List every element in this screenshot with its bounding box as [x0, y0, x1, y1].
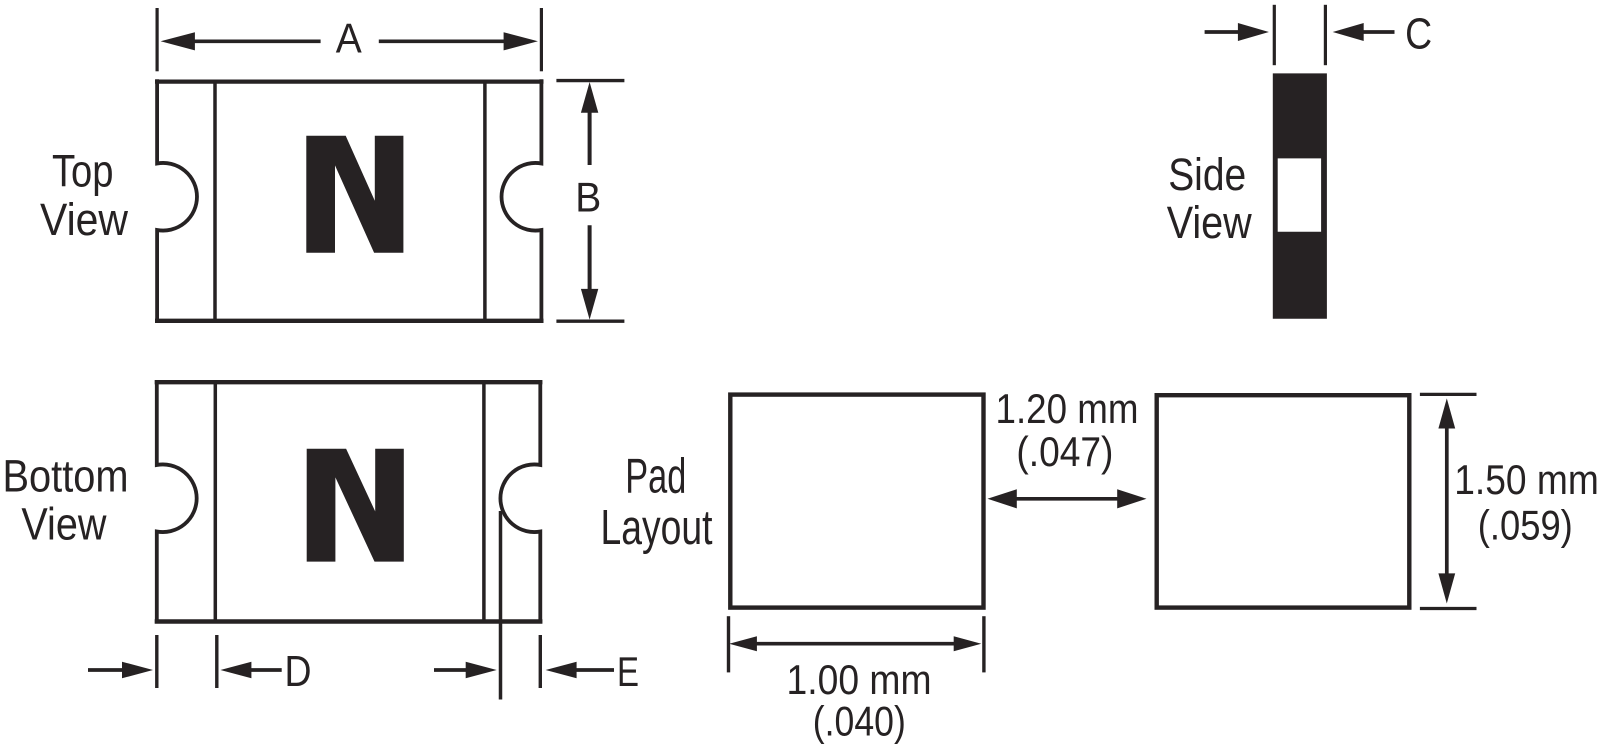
dimension C left pointer shaft [1205, 30, 1238, 34]
side view C left extension line [1273, 5, 1276, 65]
svg-text:1.50 mm: 1.50 mm [1454, 456, 1599, 503]
svg-text:View: View [1167, 197, 1252, 248]
svg-text:(.059): (.059) [1478, 502, 1573, 549]
dimension D/E tick at body left edge [155, 635, 158, 688]
dimension E tick at body right edge [539, 635, 542, 688]
pad height bottom arrowhead [1438, 573, 1455, 603]
pad width right tick [982, 616, 985, 672]
dimension A right arrowhead [504, 32, 538, 50]
bottom view left edge with notch [157, 380, 197, 623]
dimension B arrow lower shaft [588, 225, 592, 291]
svg-text:Layout: Layout [601, 501, 713, 555]
pad width right arrowhead [954, 636, 982, 651]
svg-text:E: E [617, 648, 639, 695]
svg-text:1.20 mm: 1.20 mm [996, 385, 1139, 432]
pad height arrow shaft [1445, 427, 1449, 575]
dimension E arrowhead [546, 662, 577, 679]
top view body outline bottom edge [155, 319, 544, 323]
pad layout left pad [730, 395, 983, 608]
dimension E arrow shaft [575, 668, 614, 672]
dimension A left arrowhead [161, 32, 195, 50]
top view right terminal band line [483, 81, 487, 321]
pad height top extension line [1420, 393, 1477, 396]
bottom view left terminal band line [214, 382, 218, 622]
dimension D left pointer shaft [88, 668, 124, 672]
pad gap arrow shaft [1014, 497, 1122, 501]
pad layout right pad [1157, 395, 1410, 607]
pad height top arrowhead [1438, 398, 1455, 428]
dimension C arrowhead [1333, 23, 1364, 41]
dimension E left pointer arrowhead [466, 662, 497, 679]
top view left terminal band line [213, 81, 217, 321]
svg-text:(.047): (.047) [1016, 428, 1113, 475]
bottom view body outline bottom edge [155, 619, 543, 624]
dimension A arrow right shaft [379, 39, 505, 43]
bottom view right edge with notch [500, 380, 540, 623]
dimension B arrow upper shaft [588, 111, 592, 165]
dimension D tick at band line [215, 635, 218, 688]
top view right edge with notch [502, 79, 542, 323]
dimension C left pointer arrowhead [1238, 23, 1269, 41]
svg-text:View: View [21, 499, 106, 550]
svg-text:C: C [1405, 10, 1432, 58]
side view C right extension line [1324, 5, 1327, 65]
side view body bar [1273, 73, 1327, 318]
dimension D left pointer arrowhead [122, 662, 153, 679]
bottom view right terminal band line [482, 382, 486, 622]
svg-text:Pad: Pad [625, 450, 686, 504]
dimension C arrow shaft [1362, 30, 1395, 34]
dimension B top extension line [556, 79, 624, 82]
dimension A right extension line [540, 8, 543, 71]
pad height bottom extension line [1420, 607, 1477, 610]
dimension D arrowhead [220, 662, 251, 679]
dimension A left extension line [156, 8, 159, 71]
svg-text:View: View [40, 194, 128, 245]
svg-text:1.00 mm: 1.00 mm [787, 656, 932, 703]
svg-text:(.040): (.040) [813, 698, 906, 745]
top view left edge with notch [157, 79, 197, 323]
svg-text:Top: Top [52, 146, 114, 197]
dimension E inner extension line from notch [499, 511, 503, 700]
pad width left tick [727, 616, 730, 672]
svg-text:Bottom: Bottom [3, 450, 129, 501]
dimension B bottom arrowhead [581, 289, 598, 320]
dimension B top arrowhead [581, 82, 598, 113]
top view body outline top edge [155, 79, 544, 83]
dimension D arrow shaft [249, 668, 282, 672]
dimension A arrow left shaft [191, 39, 321, 43]
svg-text:B: B [575, 174, 601, 221]
bottom view body outline top edge [155, 380, 543, 384]
pad width left arrowhead [729, 636, 757, 651]
pad gap right arrowhead [1117, 489, 1146, 508]
letter N on bottom view [307, 449, 404, 562]
svg-text:D: D [285, 648, 312, 696]
dimension E left pointer shaft [434, 668, 467, 672]
svg-text:Side: Side [1168, 149, 1246, 200]
svg-text:A: A [336, 15, 362, 62]
pad width arrow shaft [755, 642, 955, 646]
pad gap left arrowhead [988, 489, 1017, 508]
letter N on top view [306, 136, 403, 253]
dimension B bottom extension line [556, 320, 624, 323]
